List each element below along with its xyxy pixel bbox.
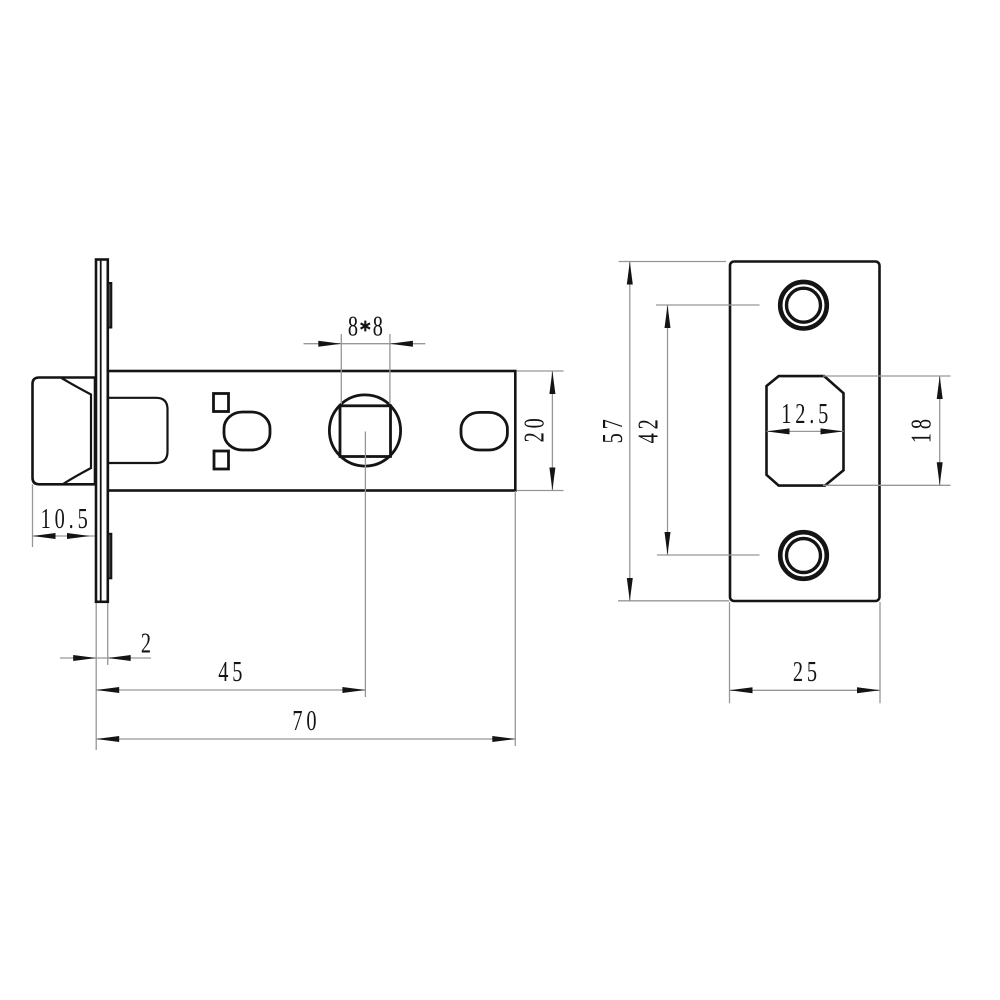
svg-text:8: 8 (348, 311, 358, 342)
svg-text:10.5: 10.5 (41, 504, 92, 535)
svg-text:18: 18 (906, 415, 937, 443)
svg-text:12.5: 12.5 (781, 398, 832, 429)
svg-text:20: 20 (519, 414, 550, 442)
svg-text:25: 25 (793, 657, 821, 688)
svg-text:2: 2 (141, 628, 155, 659)
svg-text:45: 45 (218, 656, 246, 687)
svg-text:70: 70 (292, 706, 320, 737)
svg-text:57: 57 (598, 415, 629, 443)
svg-text:42: 42 (633, 415, 664, 443)
svg-text:8: 8 (373, 311, 383, 342)
